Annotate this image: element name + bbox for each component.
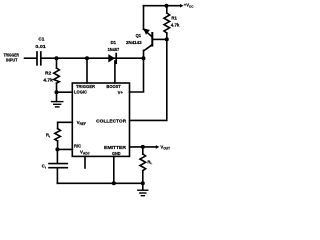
wire GND pin	[113, 156, 115, 183]
resistor R2	[43, 58, 59, 92]
svg-text:1N457: 1N457	[108, 47, 120, 52]
svg-text:TRIGGER: TRIGGER	[4, 52, 20, 57]
svg-text:4.7k: 4.7k	[171, 22, 180, 27]
node junction GND/rail	[112, 181, 116, 185]
node junction trigger drop	[85, 56, 89, 60]
wire V+ pin	[130, 58, 144, 92]
node junction RL bottom	[141, 181, 145, 185]
svg-text:EMITTER: EMITTER	[104, 145, 127, 150]
svg-text:BOOST: BOOST	[106, 84, 121, 89]
svg-text:4.7k: 4.7k	[43, 77, 53, 82]
svg-text:0.01: 0.01	[35, 44, 46, 49]
svg-text:R1: R1	[171, 15, 177, 20]
svg-text:INPUT: INPUT	[6, 58, 18, 63]
node junction C1/R2	[55, 56, 59, 60]
svg-text:COLLECTOR: COLLECTOR	[96, 118, 127, 123]
wire trigger line C1 to Q1 base node	[42, 57, 144, 59]
svg-text:TRIGGER: TRIGGER	[76, 84, 96, 89]
node junction emitter/RL	[141, 145, 145, 149]
wire bottom rail	[57, 182, 142, 184]
svg-text:R2: R2	[45, 70, 52, 75]
wire boost pin drop	[114, 61, 116, 83]
ground below R2	[52, 92, 63, 107]
wire R/C pin	[57, 148, 72, 150]
wire collector loop to COLLECTOR pin	[130, 39, 167, 120]
wire trigger input to C1	[25, 57, 37, 59]
node junction R2 bottom	[55, 90, 59, 94]
svg-text:R/C: R/C	[74, 144, 82, 149]
node junction diode/base/V+	[142, 56, 146, 60]
svg-text:C1: C1	[38, 37, 45, 42]
node junction Rt/RC/Ct	[55, 147, 59, 151]
svg-text:Q1: Q1	[136, 33, 142, 38]
svg-text:LOGIC: LOGIC	[74, 90, 88, 95]
svg-text:Ct: Ct	[42, 164, 46, 170]
resistor RL	[140, 147, 152, 183]
node VOUT terminal	[156, 145, 170, 151]
resistor Rt	[46, 129, 60, 150]
svg-text:Rt: Rt	[46, 133, 50, 139]
wire Vadj stub	[84, 156, 86, 168]
resistor R1	[164, 6, 180, 40]
node junction R1 top	[165, 4, 169, 8]
svg-text:D1: D1	[111, 40, 117, 45]
wire +Vcc rail	[144, 5, 181, 7]
wire trigger drop to IC top	[86, 58, 88, 83]
svg-text:V+: V+	[118, 90, 124, 95]
wire R2 junction to IC trigger pin	[57, 91, 73, 93]
diode D1 1N457	[108, 40, 120, 63]
op-amp U1 timer block	[72, 83, 129, 156]
node trigger input label	[4, 52, 20, 62]
wire emitter pin to output	[130, 146, 157, 148]
ground bottom right	[138, 183, 148, 195]
node +Vcc terminal	[180, 3, 194, 9]
svg-text:RL: RL	[147, 159, 152, 165]
capacitor Ct	[42, 149, 68, 183]
node junction R1 bottom / collector	[165, 37, 169, 41]
capacitor C1	[35, 37, 46, 65]
wire VREF pin	[58, 122, 73, 128]
svg-text:2N4143: 2N4143	[126, 40, 142, 45]
svg-text:GND: GND	[112, 151, 121, 156]
transistor Q1 2N4143	[126, 6, 167, 59]
